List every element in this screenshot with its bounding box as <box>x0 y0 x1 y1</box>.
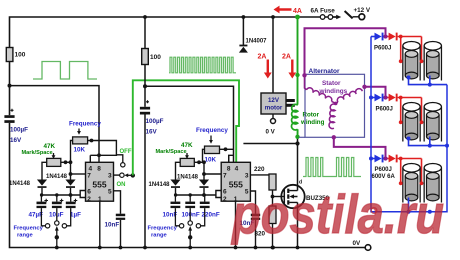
svg-text:Frequency: Frequency <box>196 127 228 134</box>
pin 1 wire to 0V <box>99 201 101 247</box>
svg-text:3: 3 <box>108 173 112 180</box>
diode P600J red bank R=97.5 <box>389 94 396 102</box>
wire bank1 negative return <box>409 76 448 85</box>
svg-text:16V: 16V <box>146 129 158 136</box>
pin 1 wire to 0V (2) <box>235 201 237 247</box>
rotor winding coil <box>291 104 297 130</box>
wire supply horizontal to 555 no.1 <box>10 86 100 156</box>
op-amp 555 timer U2 <box>221 162 250 201</box>
diode P600J red bank R=36.5 <box>389 33 396 41</box>
wire pin7 node <box>71 173 86 175</box>
wire pin7 node (2) <box>204 173 221 175</box>
waveform slow square wave <box>33 62 97 80</box>
svg-text:7: 7 <box>223 173 227 180</box>
svg-text:2A: 2A <box>282 54 291 61</box>
wire stator tap A (top) <box>305 28 386 74</box>
wire pin6/pin2 bracket <box>80 191 85 198</box>
wire blue bus anode <box>371 158 375 160</box>
battery cell front 411.5 R=97.5 <box>405 115 418 137</box>
battery cell back 432.8 R=97.5 <box>424 107 441 142</box>
wire pin6/pin2 bracket (2) <box>216 191 221 198</box>
svg-text:555: 555 <box>92 180 106 190</box>
wire supply horizontal to 555 no.2 <box>145 86 234 162</box>
diode P600J blue bank R=158.5 <box>375 155 382 163</box>
capacitor 100uF 16V (mid) <box>146 100 149 103</box>
svg-text:Frequency: Frequency <box>148 226 178 232</box>
pin 8 stub <box>98 155 100 162</box>
resistor R 100 (left) <box>6 48 13 62</box>
wire blue bus anode <box>371 97 375 99</box>
node tap junction R=36.5 <box>384 36 389 38</box>
svg-text:47K: 47K <box>44 143 56 150</box>
transistor MOSFET BUZ350 <box>281 185 304 208</box>
pin 5 wire + capacitor 10nF (2) <box>250 191 255 214</box>
capacitor timing 41.4 <box>40 195 42 202</box>
node junctions on bottom rail <box>271 246 275 250</box>
svg-text:100µF: 100µF <box>10 127 28 134</box>
svg-text:100µF: 100µF <box>146 118 164 125</box>
battery cell back 432.8 R=158.5 <box>424 168 441 203</box>
svg-text:Stator: Stator <box>322 80 341 87</box>
svg-text:Frequency: Frequency <box>14 226 44 232</box>
svg-text:4: 4 <box>235 166 239 173</box>
wire 10K(2) left down <box>203 149 205 179</box>
svg-text:Mark/Space: Mark/Space <box>22 150 53 156</box>
wire left rail down to 0V <box>9 61 11 115</box>
svg-text:1N4007: 1N4007 <box>246 39 268 45</box>
svg-text:100: 100 <box>15 52 26 59</box>
wire top +12V rail <box>10 17 340 48</box>
svg-text:P600J: P600J <box>374 46 391 52</box>
pin 3 stub <box>114 174 120 176</box>
wire pin3 no.2 to gate resistor <box>250 175 272 176</box>
wire drain <box>297 137 299 191</box>
svg-text:P600J: P600J <box>376 107 393 113</box>
svg-text:12V: 12V <box>268 97 280 104</box>
wire source to 0V <box>297 202 299 247</box>
svg-text:10nF: 10nF <box>105 222 120 229</box>
wire stator tap B <box>362 85 366 89</box>
node green rotor tap on rail <box>295 15 300 20</box>
svg-text:0 V: 0 V <box>266 129 276 136</box>
svg-text:range: range <box>17 233 34 239</box>
wire bank3 negative return <box>408 198 410 212</box>
svg-text:1N4148: 1N4148 <box>177 174 199 180</box>
svg-text:2: 2 <box>87 196 91 203</box>
svg-text:motor: motor <box>265 105 283 112</box>
svg-text:ON: ON <box>117 182 126 188</box>
node motor branch <box>271 15 275 19</box>
svg-text:+12 V: +12 V <box>354 7 371 14</box>
svg-text:1N4148: 1N4148 <box>149 182 171 188</box>
stator winding 1 <box>305 76 307 90</box>
resistor 820 <box>269 206 276 224</box>
svg-text:3: 3 <box>245 173 249 180</box>
svg-text:600V 6A: 600V 6A <box>372 174 396 180</box>
battery cell back 432.8 R=36.5 <box>424 46 441 81</box>
node supply junction circuit 2 <box>143 84 147 88</box>
battery cell back 411.5 R=97.5 <box>403 107 420 142</box>
terminal 0V <box>365 245 371 251</box>
wire timing node horizontal <box>41 194 80 196</box>
svg-text:Mark/Space: Mark/Space <box>156 149 187 155</box>
svg-text:7: 7 <box>87 173 91 180</box>
capacitor timing 70.7 <box>70 195 72 202</box>
node tap junction R=158.5 <box>384 158 389 160</box>
svg-text:winding: winding <box>300 119 325 126</box>
svg-text:5: 5 <box>108 188 112 195</box>
battery cell front 432.8 R=97.5 <box>427 115 440 137</box>
wire 10K(2) right to supply spine <box>220 148 234 150</box>
wire red positive bus <box>398 36 422 38</box>
svg-text:16V: 16V <box>10 137 22 144</box>
wire blue bus left <box>371 37 447 212</box>
node gate <box>272 190 274 206</box>
svg-text:range: range <box>151 233 168 239</box>
diode P600J blue bank R=97.5 <box>375 94 382 102</box>
wire blue bus anode <box>371 36 375 38</box>
op-amp 555 timer U1 <box>86 162 114 201</box>
switch frequency range (1) <box>41 208 45 226</box>
node tap junction R=97.5 <box>384 97 389 99</box>
svg-text:4: 4 <box>88 166 92 173</box>
battery cell back 411.5 R=158.5 <box>403 168 420 203</box>
svg-text:OFF: OFF <box>120 149 132 155</box>
wire flyback horizontal <box>243 143 297 145</box>
diode 1N4007 flyback <box>242 15 246 19</box>
motor shaft coupling <box>286 99 295 102</box>
resistor R 100 (mid) <box>144 17 146 49</box>
arrow 4A <box>274 6 292 14</box>
capacitor timing (2) 175.4 <box>174 195 176 202</box>
svg-text:2: 2 <box>223 196 227 203</box>
wire 10K left down to pin7 node <box>71 141 73 180</box>
svg-text:10K: 10K <box>74 147 86 154</box>
wire green output gate to 555 no.2 pin4 <box>133 80 239 175</box>
pin 4 stub <box>89 155 91 162</box>
svg-text:2A: 2A <box>258 54 267 61</box>
node supply junction circuit 2 on rail <box>143 15 147 19</box>
pin 8 stub (2) <box>228 155 230 162</box>
svg-text:1N4148: 1N4148 <box>46 174 68 180</box>
wire timing node horizontal (2) <box>175 194 216 196</box>
svg-text:47K: 47K <box>181 142 193 149</box>
svg-text:4A: 4A <box>293 8 302 15</box>
waveform fast square wave <box>169 57 236 73</box>
svg-text:Alternator: Alternator <box>309 68 341 75</box>
wire stator tap C <box>334 137 386 158</box>
battery cell front 432.8 R=158.5 <box>427 176 440 198</box>
wire rotor supply green <box>297 17 299 105</box>
battery cell front 411.5 R=36.5 <box>405 54 418 76</box>
stator winding 2 <box>337 89 362 103</box>
motor 12V <box>261 93 286 114</box>
svg-text:1µF: 1µF <box>70 212 81 219</box>
capacitor timing (2) 204.7 <box>204 195 206 202</box>
capacitor 100uF 16V (left) <box>11 109 14 112</box>
alternator box <box>305 74 365 137</box>
battery cell back 411.5 R=36.5 <box>403 46 420 81</box>
capacitor timing 56.8 <box>56 195 58 202</box>
battery cell front 432.8 R=36.5 <box>427 54 440 76</box>
svg-text:6: 6 <box>223 188 227 195</box>
battery cell front 411.5 R=158.5 <box>405 176 418 198</box>
diode P600J red bank R=158.5 <box>389 155 396 163</box>
svg-text:100: 100 <box>150 54 161 61</box>
motor 0V terminal <box>272 114 274 119</box>
wire bank2 negative return <box>409 137 448 146</box>
wire red positive bus <box>398 158 422 160</box>
svg-text:1N4148: 1N4148 <box>9 181 31 187</box>
node supply junction circuit 1 <box>8 84 12 88</box>
svg-text:P600J: P600J <box>375 167 392 173</box>
wire red positive bus <box>398 97 422 99</box>
svg-text:10K: 10K <box>205 157 217 164</box>
svg-text:220: 220 <box>254 166 265 173</box>
switch power <box>333 16 336 18</box>
terminal +12V <box>353 16 359 18</box>
svg-text:Frequency: Frequency <box>69 120 101 127</box>
wire motor supply <box>272 17 274 93</box>
switch frequency range (2) <box>175 208 179 226</box>
svg-text:postila.ru: postila.ru <box>230 183 444 245</box>
wire 10K right to supply node <box>88 141 117 156</box>
svg-text:8: 8 <box>97 166 101 173</box>
svg-text:8: 8 <box>227 166 231 173</box>
svg-text:6A Fuse: 6A Fuse <box>311 7 336 14</box>
svg-text:6: 6 <box>87 188 91 195</box>
stator winding 3 <box>329 104 335 129</box>
pin 5 wire + capacitor 10nF (1) <box>114 191 121 214</box>
diode P600J blue bank R=36.5 <box>375 33 382 41</box>
capacitor timing (2) 190.2 <box>189 195 191 202</box>
waveform gate bursts <box>303 158 326 177</box>
